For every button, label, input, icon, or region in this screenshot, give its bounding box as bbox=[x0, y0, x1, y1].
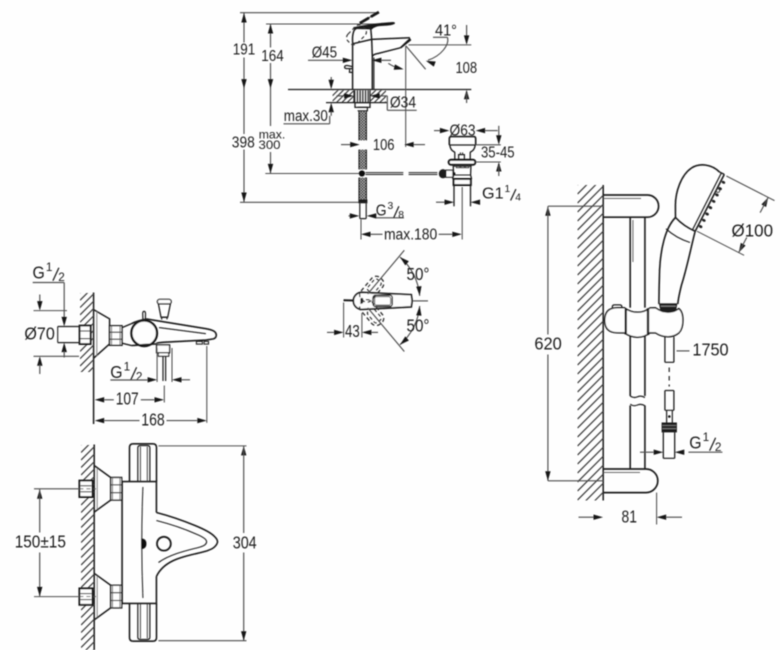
svg-text:Ø45: Ø45 bbox=[312, 45, 337, 62]
top knob bbox=[130, 444, 157, 482]
hose knurled nut bbox=[662, 423, 677, 433]
ref line 398 bottom hose end bbox=[240, 201, 366, 203]
svg-text:107: 107 bbox=[116, 389, 139, 409]
label G1 1/4 bbox=[436, 184, 521, 205]
ref line lever top (164 top) bbox=[266, 23, 392, 25]
svg-text:max.30: max.30 bbox=[284, 108, 328, 125]
curved leader to angle line bbox=[388, 63, 403, 69]
ref line spout tip height bbox=[409, 44, 472, 46]
pop-up waste bottom cup bbox=[454, 179, 471, 185]
svg-text:2: 2 bbox=[136, 370, 143, 383]
union escutcheon bbox=[94, 466, 111, 513]
svg-text:Ø100: Ø100 bbox=[732, 221, 774, 241]
dim 106 bbox=[341, 137, 425, 154]
bottom wall bracket bbox=[603, 469, 658, 493]
pop-up waste taper bbox=[450, 145, 475, 160]
bottom knob bbox=[130, 603, 157, 641]
label max.30 bbox=[284, 77, 334, 125]
dim O70 bbox=[24, 295, 55, 375]
shower hose upper bbox=[665, 337, 674, 363]
spray face nozzles bbox=[698, 180, 725, 229]
basin deck top line bbox=[288, 89, 471, 91]
flexible hose upper braided section bbox=[359, 111, 366, 170]
svg-text:108: 108 bbox=[455, 60, 477, 77]
ref line spout tip vertical bbox=[405, 46, 407, 147]
svg-text:168: 168 bbox=[141, 410, 165, 430]
flexible hose lower braided section bbox=[359, 178, 366, 200]
union thread bbox=[111, 585, 122, 608]
label 164 bbox=[261, 48, 284, 65]
waste tailpipe bbox=[454, 185, 471, 206]
dim 620 bbox=[534, 206, 562, 481]
angle zero tick bbox=[413, 300, 428, 302]
ext lines outlet collar bbox=[157, 348, 172, 382]
hand shower head bbox=[675, 165, 724, 231]
mounting shank through deck bbox=[354, 90, 370, 102]
faucet spout bbox=[372, 38, 412, 57]
slider holder on rail bbox=[605, 305, 683, 337]
neck to valve body bbox=[122, 324, 132, 346]
svg-text:1: 1 bbox=[124, 360, 131, 373]
label 191 bbox=[233, 41, 256, 58]
union escutcheon bbox=[94, 573, 111, 620]
bottom outlet pipe bbox=[163, 356, 166, 381]
svg-text:4: 4 bbox=[515, 193, 521, 204]
ext lines 43 bbox=[344, 303, 362, 338]
pop-up waste pull rod bbox=[366, 173, 438, 175]
dim max.180 bbox=[361, 227, 462, 244]
dim 150+-15 bbox=[15, 489, 66, 596]
hand shower handle bbox=[659, 218, 695, 305]
ray +50deg bbox=[368, 308, 405, 352]
ref line 620 bottom bbox=[548, 480, 603, 482]
wall hatching (shower rail) bbox=[578, 159, 604, 527]
svg-text:43: 43 bbox=[345, 321, 360, 341]
faucet body bbox=[353, 39, 374, 89]
label max.300 bbox=[259, 128, 286, 152]
ref line lever tip (191 top) bbox=[240, 12, 378, 14]
dim 35-45 bbox=[481, 126, 515, 176]
label 1750 with leader bbox=[677, 340, 729, 360]
svg-text:Ø70: Ø70 bbox=[24, 324, 55, 344]
svg-text:50°: 50° bbox=[407, 264, 430, 284]
dim 191/398 vertical line bbox=[241, 13, 246, 202]
upper 50deg arc bbox=[400, 257, 422, 296]
union centreline bbox=[34, 488, 96, 490]
lever top view body bbox=[353, 292, 412, 309]
junction node dot bbox=[359, 170, 365, 176]
union inlet pipe bbox=[58, 327, 80, 343]
union nut behind wall bbox=[80, 326, 91, 344]
svg-text:1750: 1750 bbox=[692, 340, 728, 360]
41deg angle line from spout tip bbox=[406, 46, 426, 70]
svg-text:Ø34: Ø34 bbox=[390, 95, 417, 112]
dim 108 bbox=[455, 25, 477, 103]
union nut in wall bbox=[79, 481, 92, 497]
label G1/2 bottom outlet bbox=[110, 360, 190, 383]
basin deck bottom line bbox=[326, 102, 387, 104]
bath spout body bbox=[132, 319, 217, 346]
pop-up waste body bbox=[453, 165, 472, 179]
dim 164/max300 vertical line bbox=[268, 24, 273, 173]
svg-text:81: 81 bbox=[622, 506, 637, 526]
svg-text:G1: G1 bbox=[482, 185, 504, 202]
wall line (thermostat) bbox=[93, 445, 95, 650]
label 398 bbox=[232, 135, 255, 152]
dim 304 bbox=[233, 446, 257, 641]
label 50deg upper bbox=[407, 264, 430, 284]
hose lower segment bbox=[665, 391, 674, 423]
pop-up waste flange bbox=[449, 160, 476, 165]
ref lines 304 bbox=[158, 446, 246, 641]
svg-text:191: 191 bbox=[233, 41, 256, 58]
svg-text:398: 398 bbox=[232, 135, 255, 152]
lever window detail bbox=[373, 295, 392, 306]
svg-text:max.180: max.180 bbox=[384, 227, 437, 244]
waste centreline extension bbox=[461, 187, 463, 240]
svg-text:300: 300 bbox=[259, 138, 281, 152]
handle knurled cone bbox=[660, 304, 677, 312]
thermostat dark tick bbox=[142, 539, 147, 549]
diverter knob bbox=[157, 299, 171, 319]
deck hatching bbox=[333, 69, 387, 128]
cartridge dome bbox=[353, 27, 372, 44]
shower rail tube bbox=[630, 217, 645, 469]
svg-text:50°: 50° bbox=[407, 316, 430, 336]
svg-text:G: G bbox=[110, 362, 122, 382]
wall line (bath mixer) bbox=[93, 293, 95, 425]
ref line 620 top bbox=[548, 205, 603, 207]
dim 168 bbox=[95, 410, 207, 430]
dim 107 bbox=[95, 389, 164, 409]
svg-text:G: G bbox=[376, 203, 387, 220]
pull rod connector knob bbox=[439, 169, 456, 178]
temperature pin stub bbox=[143, 311, 146, 319]
dim O63 bbox=[434, 122, 498, 139]
ext line outlet centre bbox=[163, 386, 165, 403]
ref line max300 bottom / pull rod level bbox=[265, 173, 359, 175]
union centreline bbox=[34, 596, 96, 598]
svg-text:304: 304 bbox=[233, 532, 257, 552]
lever dark notch bbox=[360, 298, 363, 304]
faucet lever (closed position) bbox=[354, 22, 395, 29]
svg-text:164: 164 bbox=[261, 48, 284, 65]
lower 50deg arc bbox=[400, 306, 422, 345]
thermostat outlet beak bbox=[156, 513, 217, 577]
svg-text:35-45: 35-45 bbox=[481, 144, 515, 161]
lever rotated -50 dashed bbox=[357, 274, 386, 305]
mounting nut under deck bbox=[355, 103, 370, 111]
dim 81 bbox=[579, 506, 683, 526]
svg-text:1: 1 bbox=[46, 261, 53, 274]
svg-text:620: 620 bbox=[534, 333, 562, 353]
ext line spout outlet bbox=[206, 346, 208, 423]
svg-text:150±15: 150±15 bbox=[15, 531, 66, 551]
wall hatching (thermostat) bbox=[81, 432, 94, 650]
svg-text:1: 1 bbox=[505, 184, 511, 195]
spout aerator tabs bbox=[196, 341, 208, 344]
svg-text:Ø63: Ø63 bbox=[450, 122, 476, 139]
top wall bracket bbox=[603, 195, 658, 217]
valve body circle bbox=[131, 321, 157, 347]
svg-text:8: 8 bbox=[398, 210, 404, 221]
lever rotated +50 dashed bbox=[357, 297, 386, 328]
ref line escutcheon top bbox=[34, 310, 68, 312]
ext line faucet centre below bbox=[360, 220, 362, 240]
label G1/2 hose end bbox=[640, 431, 722, 455]
label O34 bbox=[337, 93, 417, 112]
svg-text:G: G bbox=[689, 432, 701, 452]
ext line bracket outer edge bbox=[656, 493, 658, 525]
hose end tube G3/8 bbox=[360, 203, 366, 218]
ref line basin surface at waste bbox=[476, 144, 501, 146]
hose end nut bbox=[358, 200, 367, 204]
svg-text:1: 1 bbox=[703, 431, 710, 444]
svg-text:G: G bbox=[33, 262, 45, 282]
lever axis pin bbox=[344, 299, 354, 301]
ref line waste flange bbox=[475, 161, 500, 163]
ref line escutcheon bottom bbox=[34, 355, 80, 357]
label G1/2 wall union bbox=[33, 261, 67, 358]
dim O100 bbox=[697, 176, 775, 255]
hose end tube G1/2 bbox=[663, 432, 674, 458]
hand shower neck joint arcs bbox=[666, 218, 695, 243]
escutcheon (bath mixer) bbox=[94, 310, 110, 359]
wall hatching (bath mixer) bbox=[80, 279, 94, 388]
pop-up waste top cylinder bbox=[449, 137, 475, 145]
lever raised position (dashed) bbox=[344, 12, 378, 47]
label 50deg lower bbox=[407, 316, 430, 336]
svg-text:3: 3 bbox=[388, 201, 394, 212]
thermostat circle detail bbox=[157, 537, 171, 551]
union thread bbox=[111, 478, 122, 501]
union nut in wall bbox=[79, 588, 92, 604]
union thread bbox=[110, 326, 122, 346]
wall line (shower rail) bbox=[602, 185, 604, 501]
pop-up rod knob at faucet back bbox=[345, 65, 353, 72]
label O45 with leader bbox=[308, 45, 391, 63]
label 41deg with curved leader bbox=[426, 23, 457, 67]
hose dashed break bbox=[668, 368, 670, 387]
ray -50deg bbox=[368, 250, 405, 294]
rail break squiggle bbox=[630, 396, 645, 406]
svg-text:106: 106 bbox=[373, 137, 395, 154]
dim 43 bbox=[327, 321, 378, 341]
label G3/8 bbox=[349, 201, 405, 221]
thermostat body bbox=[122, 482, 156, 604]
bottom outlet collar bbox=[157, 345, 170, 356]
